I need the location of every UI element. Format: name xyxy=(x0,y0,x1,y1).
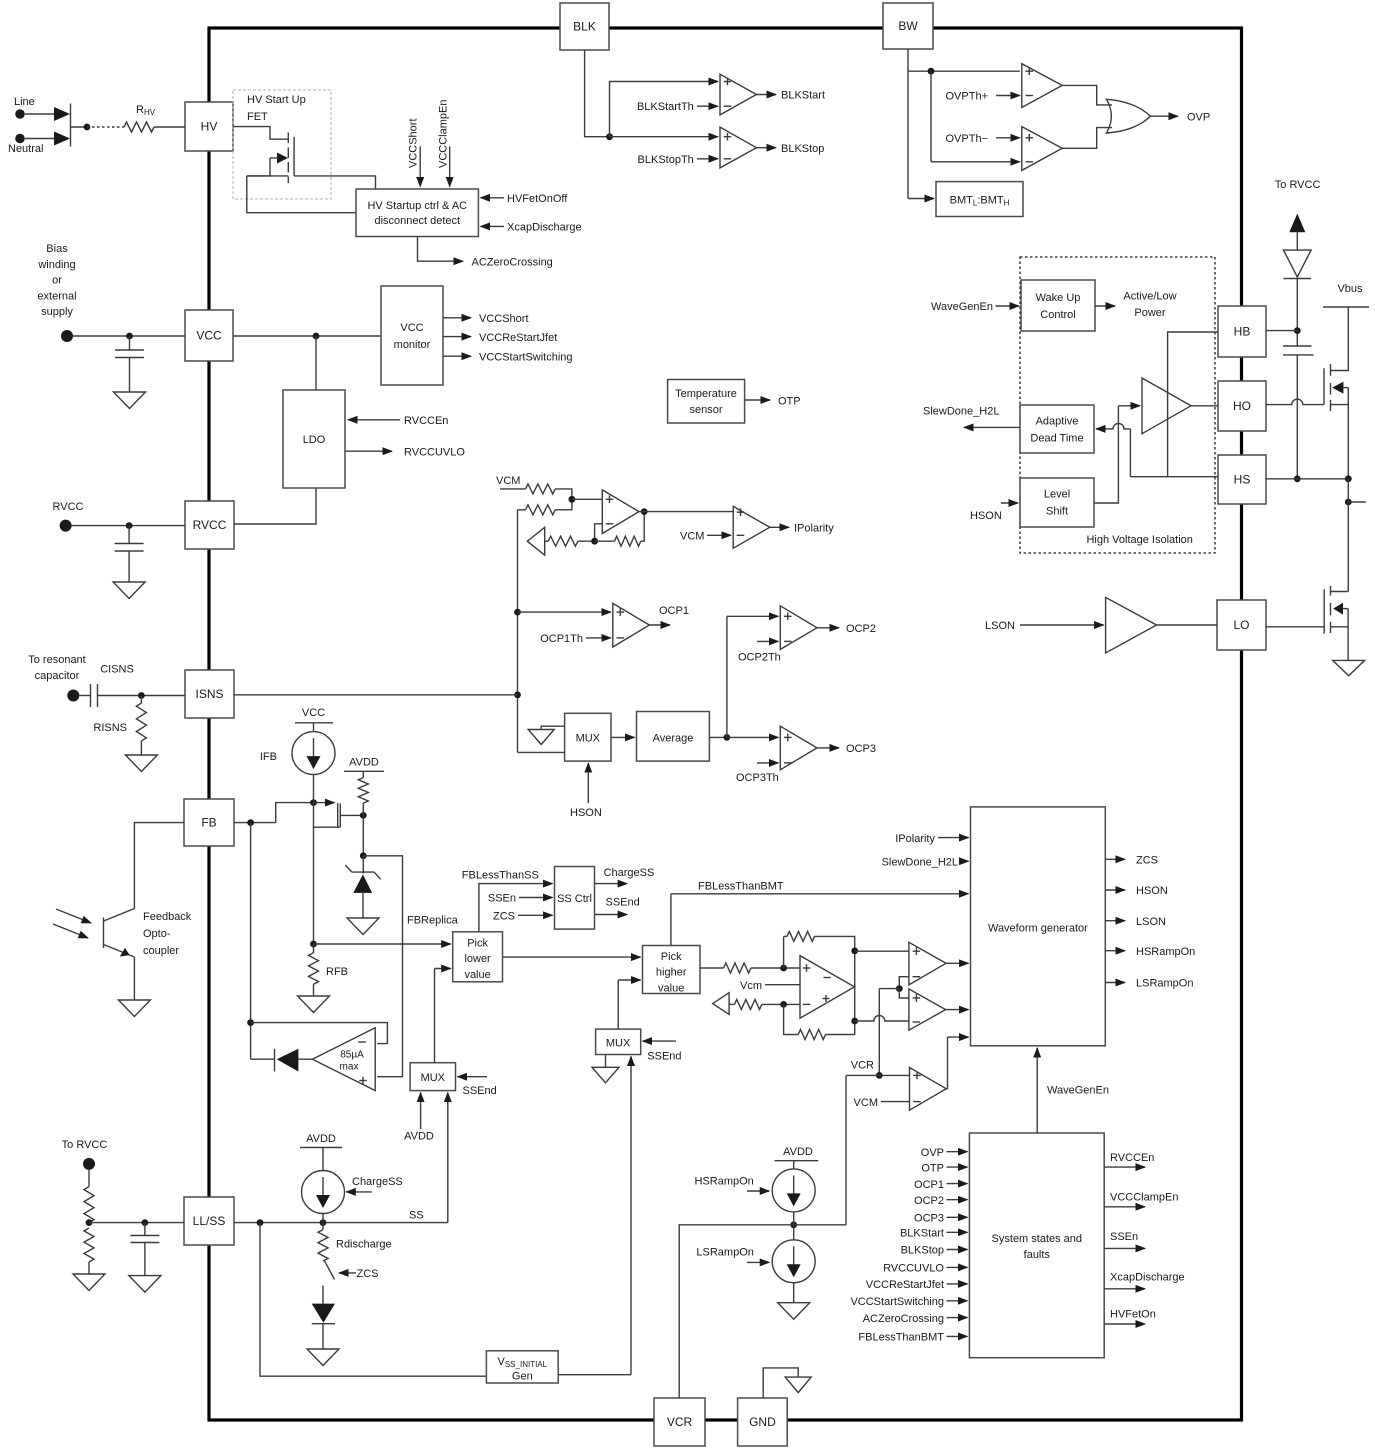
svg-text:Shift: Shift xyxy=(1046,506,1068,518)
svg-text:OCP3Th: OCP3Th xyxy=(736,772,779,784)
svg-text:VCCReStartJfet: VCCReStartJfet xyxy=(479,332,557,344)
svg-text:VCCShort: VCCShort xyxy=(479,313,529,325)
svg-text:OCP2: OCP2 xyxy=(914,1195,944,1207)
svg-text:HS: HS xyxy=(1234,473,1251,487)
svg-text:System states and: System states and xyxy=(992,1233,1083,1245)
svg-text:Wake Up: Wake Up xyxy=(1036,292,1081,304)
svg-text:VCC: VCC xyxy=(302,707,325,719)
svg-text:RVCCUVLO: RVCCUVLO xyxy=(404,447,465,459)
svg-text:VCCStartSwitching: VCCStartSwitching xyxy=(850,1296,944,1308)
svg-text:To RVCC: To RVCC xyxy=(62,1139,108,1151)
svg-text:VCM: VCM xyxy=(680,531,704,543)
svg-text:winding: winding xyxy=(37,259,75,271)
svg-text:XcapDischarge: XcapDischarge xyxy=(1110,1271,1185,1283)
svg-text:VCC: VCC xyxy=(196,329,222,343)
svg-text:VCCReStartJfet: VCCReStartJfet xyxy=(866,1279,944,1291)
svg-text:VCC: VCC xyxy=(400,322,423,334)
svg-text:value: value xyxy=(464,969,490,981)
svg-text:capacitor: capacitor xyxy=(35,670,80,682)
svg-text:Pick: Pick xyxy=(467,937,488,949)
svg-text:HSRampOn: HSRampOn xyxy=(695,1175,754,1187)
svg-text:FBReplica: FBReplica xyxy=(407,915,459,927)
svg-text:faults: faults xyxy=(1024,1249,1051,1261)
svg-text:AVDD: AVDD xyxy=(783,1146,813,1158)
svg-text:higher: higher xyxy=(656,967,687,979)
svg-text:SSEn: SSEn xyxy=(488,893,516,905)
svg-text:Active/Low: Active/Low xyxy=(1123,291,1176,303)
svg-text:OCP1Th: OCP1Th xyxy=(540,633,583,645)
svg-text:IPolarity: IPolarity xyxy=(895,833,935,845)
svg-text:85µA: 85µA xyxy=(340,1050,364,1061)
svg-text:OCP3: OCP3 xyxy=(914,1213,944,1225)
svg-text:HV Start Up: HV Start Up xyxy=(247,94,306,106)
svg-text:HV: HV xyxy=(201,120,218,134)
svg-text:VCCShort: VCCShort xyxy=(408,118,420,168)
svg-text:BLK: BLK xyxy=(573,20,596,34)
svg-text:XcapDischarge: XcapDischarge xyxy=(507,222,582,234)
svg-text:BLKStopTh: BLKStopTh xyxy=(638,154,694,166)
svg-text:VCM: VCM xyxy=(496,475,520,487)
svg-text:value: value xyxy=(658,982,684,994)
svg-text:VCCClampEn: VCCClampEn xyxy=(438,100,450,168)
svg-text:ChargeSS: ChargeSS xyxy=(352,1176,403,1188)
svg-text:MUX: MUX xyxy=(606,1037,631,1049)
svg-text:Pick: Pick xyxy=(661,951,682,963)
svg-text:VCR: VCR xyxy=(851,1060,874,1072)
svg-text:Adaptive: Adaptive xyxy=(1036,416,1079,428)
svg-text:Opto-: Opto- xyxy=(143,928,171,940)
svg-text:RVCCEn: RVCCEn xyxy=(1110,1152,1154,1164)
svg-text:HSON: HSON xyxy=(570,807,602,819)
svg-text:RFB: RFB xyxy=(326,966,348,978)
svg-text:LSON: LSON xyxy=(985,620,1015,632)
svg-text:LO: LO xyxy=(1233,618,1249,632)
svg-text:FET: FET xyxy=(247,111,268,123)
svg-text:FBLessThanBMT: FBLessThanBMT xyxy=(858,1332,944,1344)
svg-text:ZCS: ZCS xyxy=(357,1268,379,1280)
svg-text:SS Ctrl: SS Ctrl xyxy=(557,893,592,905)
svg-text:external: external xyxy=(37,290,76,302)
svg-text:sensor: sensor xyxy=(689,404,722,416)
svg-text:max: max xyxy=(340,1062,359,1073)
svg-text:Dead Time: Dead Time xyxy=(1030,433,1083,445)
svg-text:Power: Power xyxy=(1134,307,1166,319)
svg-text:LDO: LDO xyxy=(303,434,326,446)
svg-text:OVP: OVP xyxy=(921,1147,944,1159)
svg-text:RISNS: RISNS xyxy=(93,722,127,734)
svg-text:OCP3: OCP3 xyxy=(846,743,876,755)
svg-text:ISNS: ISNS xyxy=(195,687,223,701)
svg-text:or: or xyxy=(52,275,62,287)
svg-text:SSEnd: SSEnd xyxy=(647,1051,681,1063)
svg-text:SSEn: SSEn xyxy=(1110,1231,1138,1243)
svg-text:ChargeSS: ChargeSS xyxy=(604,867,655,879)
svg-text:Vbus: Vbus xyxy=(1337,283,1363,295)
svg-text:coupler: coupler xyxy=(143,945,179,957)
svg-text:SlewDone_H2L: SlewDone_H2L xyxy=(923,406,999,418)
svg-text:BLKStart: BLKStart xyxy=(900,1228,944,1240)
svg-text:WaveGenEn: WaveGenEn xyxy=(1047,1085,1109,1097)
svg-text:OTP: OTP xyxy=(921,1162,944,1174)
svg-text:LSRampOn: LSRampOn xyxy=(696,1247,753,1259)
svg-text:SS: SS xyxy=(409,1210,424,1222)
svg-text:OCP1: OCP1 xyxy=(659,605,689,617)
svg-text:SSEnd: SSEnd xyxy=(606,897,640,909)
svg-text:AVDD: AVDD xyxy=(306,1133,336,1145)
svg-text:HSRampOn: HSRampOn xyxy=(1136,946,1195,958)
svg-text:ZCS: ZCS xyxy=(493,911,515,923)
svg-text:HVFetOn: HVFetOn xyxy=(1110,1309,1156,1321)
svg-text:LSON: LSON xyxy=(1136,916,1166,928)
svg-text:Bias: Bias xyxy=(46,243,68,255)
svg-text:Temperature: Temperature xyxy=(675,388,737,400)
svg-text:AVDD: AVDD xyxy=(404,1130,434,1142)
svg-text:Neutral: Neutral xyxy=(8,143,43,155)
svg-text:HO: HO xyxy=(1233,399,1251,413)
svg-text:IFB: IFB xyxy=(260,751,277,763)
svg-text:FBLessThanSS: FBLessThanSS xyxy=(462,870,539,882)
svg-text:MUX: MUX xyxy=(421,1072,446,1084)
svg-text:SlewDone_H2L: SlewDone_H2L xyxy=(882,856,958,868)
svg-text:WaveGenEn: WaveGenEn xyxy=(931,301,993,313)
svg-text:IPolarity: IPolarity xyxy=(794,523,834,535)
svg-text:OVPTh−: OVPTh− xyxy=(946,133,989,145)
svg-text:Rdischarge: Rdischarge xyxy=(336,1239,392,1251)
svg-text:OTP: OTP xyxy=(778,396,801,408)
svg-text:FBLessThanBMT: FBLessThanBMT xyxy=(698,881,784,893)
svg-text:GND: GND xyxy=(749,1415,776,1429)
svg-text:OVP: OVP xyxy=(1187,112,1210,124)
svg-text:High Voltage Isolation: High Voltage Isolation xyxy=(1086,534,1192,546)
svg-text:VCM: VCM xyxy=(854,1097,878,1109)
svg-text:BLKStop: BLKStop xyxy=(901,1245,944,1257)
svg-text:Line: Line xyxy=(14,96,35,108)
svg-text:Feedback: Feedback xyxy=(143,911,192,923)
svg-text:LSRampOn: LSRampOn xyxy=(1136,978,1193,990)
svg-text:Average: Average xyxy=(653,733,694,745)
svg-text:VCCClampEn: VCCClampEn xyxy=(1110,1192,1178,1204)
svg-text:ZCS: ZCS xyxy=(1136,855,1158,867)
svg-text:AVDD: AVDD xyxy=(349,757,379,769)
svg-text:RVCC: RVCC xyxy=(193,518,227,532)
svg-text:OCP2Th: OCP2Th xyxy=(738,651,781,663)
svg-text:supply: supply xyxy=(41,306,73,318)
svg-text:VCR: VCR xyxy=(667,1415,693,1429)
svg-text:Vcm: Vcm xyxy=(740,980,762,992)
svg-text:RVCC: RVCC xyxy=(53,501,84,513)
svg-text:BMTL:BMTH: BMTL:BMTH xyxy=(950,195,1010,208)
svg-text:disconnect detect: disconnect detect xyxy=(374,215,460,227)
svg-text:MUX: MUX xyxy=(576,733,601,745)
svg-text:OVPTh+: OVPTh+ xyxy=(946,91,989,103)
svg-text:lower: lower xyxy=(464,953,491,965)
svg-text:RHV: RHV xyxy=(136,104,156,117)
svg-text:To RVCC: To RVCC xyxy=(1275,179,1321,191)
svg-text:FB: FB xyxy=(201,816,216,830)
svg-text:BW: BW xyxy=(898,19,918,33)
svg-text:monitor: monitor xyxy=(394,339,431,351)
svg-text:Waveform generator: Waveform generator xyxy=(988,922,1088,934)
svg-text:BLKStop: BLKStop xyxy=(781,143,824,155)
svg-text:Control: Control xyxy=(1040,309,1075,321)
svg-text:Level: Level xyxy=(1044,489,1070,501)
svg-text:OCP2: OCP2 xyxy=(846,623,876,635)
svg-text:VCCStartSwitching: VCCStartSwitching xyxy=(479,352,573,364)
svg-text:LL/SS: LL/SS xyxy=(193,1214,226,1228)
svg-text:SSEnd: SSEnd xyxy=(463,1085,497,1097)
svg-text:ACZeroCrossing: ACZeroCrossing xyxy=(472,257,553,269)
svg-text:ACZeroCrossing: ACZeroCrossing xyxy=(863,1313,944,1325)
svg-text:HSON: HSON xyxy=(970,510,1002,522)
svg-text:CISNS: CISNS xyxy=(100,664,134,676)
svg-text:OCP1: OCP1 xyxy=(914,1179,944,1191)
svg-text:Gen: Gen xyxy=(512,1370,533,1382)
svg-text:BLKStartTh: BLKStartTh xyxy=(637,101,694,113)
svg-text:HB: HB xyxy=(1234,325,1251,339)
svg-text:HV Startup ctrl & AC: HV Startup ctrl & AC xyxy=(367,200,467,212)
svg-text:HVFetOnOff: HVFetOnOff xyxy=(507,193,568,205)
svg-text:BLKStart: BLKStart xyxy=(781,90,825,102)
svg-text:To resonant: To resonant xyxy=(28,654,85,666)
svg-text:RVCCEn: RVCCEn xyxy=(404,415,448,427)
svg-text:HSON: HSON xyxy=(1136,885,1168,897)
svg-text:RVCCUVLO: RVCCUVLO xyxy=(883,1263,944,1275)
